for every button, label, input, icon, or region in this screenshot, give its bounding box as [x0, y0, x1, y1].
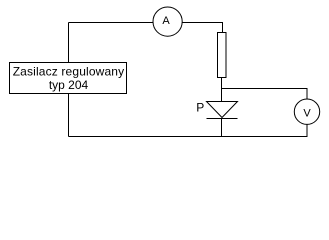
svg-text:typ 204: typ 204 — [49, 78, 89, 92]
resistor (vertical, unlabeled) — [218, 33, 227, 78]
power supply box "Zasilacz regulowany typ 204" — [10, 63, 127, 94]
svg-text:P: P — [196, 100, 204, 114]
wire: resistor bottom to diode anode — [221, 78, 223, 102]
wire: junction to voltmeter branch (horizontal) — [222, 88, 308, 90]
wire: ammeter to top-right corner, down to resistor — [182, 23, 222, 33]
svg-text:V: V — [303, 108, 311, 120]
wire: diode cathode down to bottom wire — [221, 119, 223, 137]
wire: top horizontal from left corner to ammeter — [69, 22, 154, 24]
wire: bottom horizontal return — [69, 136, 308, 138]
voltmeter circle V — [294, 99, 319, 124]
wire: left vertical from top wire through supply down to bottom wire — [68, 23, 70, 137]
svg-text:Zasilacz regulowany: Zasilacz regulowany — [13, 65, 125, 79]
wire: voltmeter branch vertical down to voltmeter — [306, 89, 308, 100]
diode P: cathode bar — [207, 118, 238, 120]
wire: voltmeter bottom to bottom wire — [306, 125, 308, 137]
svg-text:A: A — [162, 15, 170, 27]
diode P: triangle (anode) — [207, 102, 238, 118]
ammeter A (circle) — [153, 7, 182, 36]
